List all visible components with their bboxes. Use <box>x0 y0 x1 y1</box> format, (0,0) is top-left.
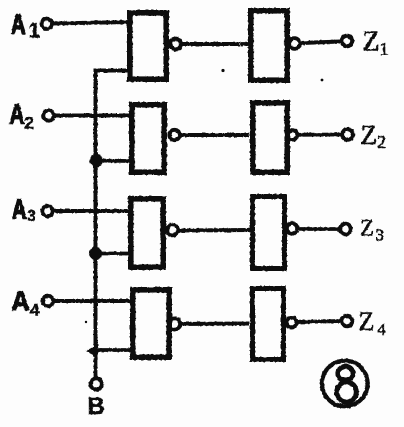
inverter U2 <box>132 105 164 172</box>
wire A3 to U3 <box>55 209 131 213</box>
svg-text:2: 2 <box>25 114 34 133</box>
node A3 terminal <box>42 206 52 216</box>
wire A2 to U2 <box>56 114 132 118</box>
wire U6 to Z2 <box>298 133 342 137</box>
wire U1 to U5 <box>182 42 239 46</box>
wire B bus to U3 pin 2 <box>96 252 131 256</box>
wire B bus to U2 pin 2 <box>96 159 132 163</box>
bubble U6 output <box>288 130 298 140</box>
svg-text:A: A <box>10 99 25 130</box>
svg-text:3: 3 <box>376 226 385 245</box>
junction B bus row2 <box>90 154 103 167</box>
wire U4 to U8 <box>181 322 247 327</box>
node B terminal <box>91 378 102 389</box>
svg-text:1: 1 <box>380 39 389 59</box>
svg-text:1: 1 <box>29 20 41 43</box>
node A2 terminal <box>43 110 53 120</box>
node Z1 terminal <box>342 36 352 46</box>
inverter U5 <box>251 11 287 80</box>
svg-text:A: A <box>12 194 27 225</box>
junction B bus row3 <box>89 247 102 260</box>
wire U2 to U6 <box>181 133 248 137</box>
svg-text:Z: Z <box>361 120 378 150</box>
inverter U6 <box>253 103 287 172</box>
wire B bus segment row2-row3 <box>94 161 98 254</box>
figure number circle 8 <box>322 361 368 407</box>
wire U3 to U7 <box>179 228 249 233</box>
wire B bus to U4 pin 2 <box>93 348 132 352</box>
svg-text:B: B <box>88 393 105 420</box>
bubble U8 output <box>287 318 297 328</box>
svg-text:4: 4 <box>378 322 386 339</box>
wire U5 to Z1 <box>301 42 342 44</box>
wire B bus segment row3-row4 <box>94 254 98 352</box>
bubble U7 output <box>287 223 297 233</box>
bubble U3 output <box>167 225 178 236</box>
speckle dots <box>221 69 224 72</box>
svg-text:Z: Z <box>359 307 375 336</box>
inverter U3 <box>131 199 163 267</box>
svg-text:A: A <box>12 286 30 316</box>
junction arrow B bus row4 <box>86 345 99 358</box>
node A4 terminal <box>43 296 53 306</box>
bubble U5 output <box>289 38 300 49</box>
figure number 8 bottom loop <box>337 382 357 402</box>
inverter U8 <box>253 289 284 360</box>
svg-text:A: A <box>11 9 26 40</box>
wire dash U1-U5 <box>243 42 248 46</box>
wire B bus to terminal B <box>94 351 98 378</box>
node A1 terminal <box>42 19 52 29</box>
inverter U1 <box>130 13 166 79</box>
svg-text:2: 2 <box>377 132 386 152</box>
wire A4 to U4 <box>55 299 132 303</box>
svg-text:4: 4 <box>30 301 40 320</box>
svg-text:Z: Z <box>360 216 374 241</box>
inverter U7 <box>253 197 285 269</box>
svg-text:Z: Z <box>363 27 380 58</box>
wire U7 to Z3 <box>298 227 341 231</box>
wire B bus to U1 pin 2 <box>96 71 129 162</box>
node Z3 terminal <box>340 224 351 235</box>
node Z4 terminal <box>342 316 352 326</box>
bubble U1 output <box>170 39 181 50</box>
figure number 8 top loop <box>338 367 353 381</box>
bubble U2 output <box>169 130 179 140</box>
node Z2 terminal <box>342 129 353 140</box>
wire A1 to U1 <box>54 22 129 24</box>
bubble U4 output <box>169 318 180 329</box>
inverter U4 <box>133 290 169 357</box>
wire U8 to Z4 <box>297 321 342 322</box>
svg-text:3: 3 <box>27 208 36 225</box>
